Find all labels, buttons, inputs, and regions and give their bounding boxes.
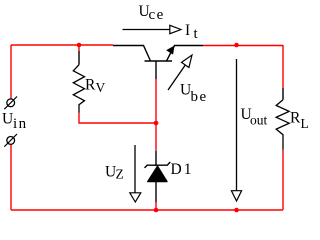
label Uout — [241, 106, 268, 128]
label Uz — [105, 164, 124, 182]
junction dot Uout top — [234, 43, 239, 48]
wire top rail left (red) — [11, 44, 113, 46]
wire Rv bottom to node (red) — [79, 113, 156, 124]
svg-text:ce: ce — [149, 7, 165, 23]
svg-text:t: t — [194, 26, 199, 42]
svg-text:L: L — [301, 116, 309, 131]
wire Rv top lead (red) — [78, 45, 80, 51]
junction dot base node — [154, 121, 159, 126]
label Uce — [139, 3, 165, 23]
svg-text:D1: D1 — [171, 161, 194, 178]
svg-text:I: I — [185, 22, 190, 39]
wire top rail right (red) — [203, 45, 283, 47]
junction dot Uout bottom — [234, 208, 239, 213]
arrow Uz — [130, 145, 141, 202]
svg-text:R: R — [290, 110, 301, 127]
wire left rail upper (red) — [10, 45, 12, 99]
wire zener to bottom rail (red) — [155, 202, 157, 210]
svg-text:out: out — [250, 113, 268, 128]
svg-text:R: R — [85, 77, 96, 94]
transistor Q1 base bar — [145, 60, 173, 62]
svg-text:U: U — [2, 111, 13, 128]
label It — [185, 22, 199, 42]
terminal input bottom — [4, 134, 17, 147]
resistor RL body — [276, 88, 289, 150]
transistor Q1 base lead — [155, 61, 157, 79]
arrow Uout — [231, 59, 241, 201]
label Uin — [2, 111, 28, 133]
label RV — [85, 77, 106, 96]
wire left rail lower (red) — [10, 145, 12, 211]
svg-text:in: in — [13, 116, 28, 132]
transistor Q1 emitter arrowhead — [167, 46, 174, 54]
arrow Uce — [123, 25, 182, 33]
junction dot zener bottom — [154, 208, 159, 213]
label Ube — [180, 82, 208, 106]
transistor Q1 emitter lead with arrow — [167, 46, 204, 62]
wire base vertical (red) — [155, 79, 157, 151]
wire right rail upper (red) — [282, 45, 284, 88]
zener diode D1 — [145, 151, 171, 202]
arrow Ube — [168, 55, 192, 90]
wire bottom rail (red) — [11, 209, 283, 211]
transistor Q1 collector lead — [113, 46, 151, 62]
wire right rail lower (red) — [282, 150, 284, 211]
label RL — [290, 110, 309, 132]
svg-text:V: V — [96, 80, 106, 95]
svg-text:Z: Z — [116, 167, 124, 182]
resistor RV body — [73, 51, 84, 113]
svg-text:be: be — [191, 89, 208, 105]
terminal input top — [4, 97, 17, 110]
junction dot Rv top — [77, 43, 82, 48]
